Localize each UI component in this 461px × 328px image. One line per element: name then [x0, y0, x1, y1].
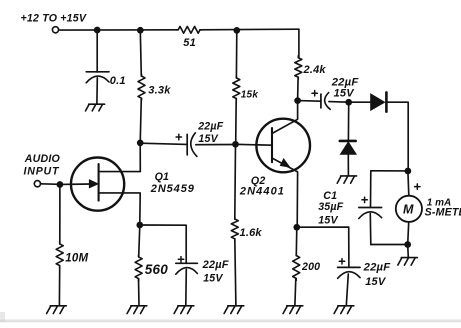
node J3 junction dot: [233, 27, 240, 34]
ground for C2: [86, 104, 105, 111]
svg-text:22µF: 22µF: [363, 261, 392, 273]
transistor Q2 2N4401 body circle: [256, 119, 310, 173]
wire Q1 drain: [99, 143, 141, 172]
wire 200 top lead: [295, 227, 298, 255]
svg-text:2.4k: 2.4k: [303, 64, 327, 76]
decorative scan streak: [0, 312, 461, 322]
diode D1 series: [371, 92, 387, 111]
svg-text:2N5459: 2N5459: [150, 183, 195, 195]
wire 200 bottom lead: [294, 278, 297, 305]
transistor Q1 2N5459 body circle: [71, 158, 124, 211]
svg-text:15V: 15V: [203, 273, 223, 285]
wire collector node to output cap: [298, 100, 321, 103]
wire 3.3k to drain node: [140, 98, 141, 143]
svg-text:22µF: 22µF: [202, 259, 229, 271]
wire source node to bypass cap: [140, 225, 186, 263]
wire corner to 2.4k: [298, 29, 300, 58]
wire detector node to D1: [349, 101, 371, 103]
node V+ supply terminal: [21, 12, 87, 33]
diode D2 shunt: [340, 141, 357, 155]
svg-text:0.1: 0.1: [110, 75, 126, 87]
svg-text:15k: 15k: [241, 89, 259, 100]
transistor Q2 emitter arrow: [280, 159, 290, 167]
wire 10M top lead: [59, 185, 61, 244]
resistor R2 51: [176, 26, 202, 49]
svg-text:15V: 15V: [365, 276, 387, 288]
node J6 source junction dot: [136, 222, 143, 229]
svg-text:35µF: 35µF: [318, 201, 343, 213]
wire 560 bottom lead: [138, 279, 141, 306]
transistor Q2 base bar: [271, 128, 273, 162]
ground for meter: [398, 258, 418, 266]
svg-text:15V: 15V: [318, 215, 338, 227]
svg-text:AUDIO: AUDIO: [24, 153, 61, 165]
wire emitter bypass bottom lead: [346, 274, 348, 306]
svg-text:1.6k: 1.6k: [240, 227, 263, 239]
resistor R5 10M: [56, 242, 88, 268]
wire 3.3k top lead: [140, 30, 141, 76]
transistor Q2 label: [239, 175, 285, 198]
wire output cap to detector node: [329, 101, 349, 104]
node J7 base junction dot: [232, 141, 239, 148]
capacitor C5 22uF emitter bypass: [338, 259, 392, 289]
wire emitter node to bypass cap: [297, 227, 349, 267]
wire gate lead: [60, 183, 91, 185]
svg-text:Q1: Q1: [155, 171, 170, 183]
resistor R3 15k: [233, 76, 259, 101]
wire input to gate node: [41, 183, 60, 186]
resistor R6 560: [135, 255, 168, 281]
node J1 junction dot: [94, 27, 101, 34]
ground for C3: [174, 306, 194, 314]
capacitor C2 0.1: [86, 72, 126, 87]
wire bypass cap bottom lead: [185, 269, 188, 305]
node J2 junction dot: [137, 27, 144, 34]
wire meter loop left upper: [370, 171, 372, 208]
node J8 collector junction dot: [294, 97, 301, 104]
node J12 meter bottom junction dot: [404, 241, 411, 248]
wire 560 top lead: [139, 225, 140, 257]
wire 0.1 cap top lead: [96, 30, 98, 72]
wire base lead: [236, 143, 273, 146]
capacitor C1 35uF meter damping: [318, 190, 381, 226]
wire D2 to ground: [347, 154, 349, 175]
resistor R4 2.4k: [295, 56, 327, 79]
node J10 detector junction dot: [345, 99, 352, 106]
wire 15k top lead: [235, 30, 237, 78]
ground for R6: [127, 306, 147, 314]
meter M1 1mA S-meter: [396, 184, 461, 222]
svg-text:2N4401: 2N4401: [239, 186, 285, 198]
transistor Q1 channel bar: [98, 164, 100, 201]
wire top rail left: [59, 29, 179, 31]
wire 1.6k bottom lead: [235, 239, 236, 306]
capacitor C6 22uF output: [312, 76, 359, 109]
node J11 meter top junction dot: [405, 168, 412, 175]
svg-text:S-METER: S-METER: [425, 207, 461, 219]
node J4 junction dot: [57, 181, 64, 188]
resistor R8 200: [293, 254, 321, 281]
wire meter top lead: [407, 171, 410, 195]
svg-text:+12 TO +15V: +12 TO +15V: [21, 12, 87, 24]
capacitor C3 22uF source bypass: [176, 257, 229, 285]
svg-text:15V: 15V: [334, 87, 356, 99]
transistor Q1 gate arrow: [89, 180, 98, 188]
svg-text:51: 51: [183, 37, 196, 49]
svg-text:15V: 15V: [198, 133, 218, 145]
node input terminal: [24, 153, 61, 187]
wire coupling cap to base node: [196, 144, 236, 146]
node J9 emitter junction dot: [293, 224, 300, 231]
svg-text:200: 200: [301, 261, 320, 273]
wire 10M bottom lead: [58, 266, 60, 306]
wire Q1 source: [99, 193, 141, 225]
ground for D2: [337, 176, 356, 183]
svg-text:M: M: [403, 202, 414, 216]
svg-text:10M: 10M: [65, 252, 88, 264]
transistor Q1 label: [150, 171, 195, 195]
transistor Q2 collector stroke: [272, 100, 298, 133]
node J5 drain junction dot: [137, 140, 144, 147]
ground for C5: [334, 306, 354, 314]
wire 2.4k to collector node: [297, 77, 300, 100]
svg-text:560: 560: [145, 262, 168, 277]
wire 15k to base node: [235, 99, 238, 144]
capacitor C4 22uF coupling: [176, 121, 224, 157]
transistor Q2 emitter stroke: [272, 158, 298, 227]
wire drain node to coupling cap: [140, 143, 187, 144]
wire meter loop left lower: [369, 214, 372, 245]
svg-text:3.3k: 3.3k: [148, 85, 171, 97]
svg-text:22µF: 22µF: [197, 121, 223, 133]
wire D1 to right corner: [388, 102, 409, 171]
wire top rail right: [200, 28, 299, 31]
resistor R1 3.3k: [138, 74, 171, 100]
wire meter loop top: [371, 170, 408, 172]
wire meter loop bottom: [371, 244, 408, 246]
wire 1.6k top lead: [234, 144, 237, 219]
wire 0.1 cap bottom lead: [96, 78, 98, 104]
wire detector node to D2: [347, 102, 349, 140]
ground for R7: [224, 306, 244, 314]
ground for R5: [47, 306, 67, 314]
wire meter bottom lead: [408, 222, 409, 244]
ground for R8: [283, 306, 303, 314]
wire meter to ground: [407, 245, 410, 258]
svg-text:INPUT: INPUT: [24, 165, 61, 177]
resistor R7 1.6k: [231, 217, 262, 241]
